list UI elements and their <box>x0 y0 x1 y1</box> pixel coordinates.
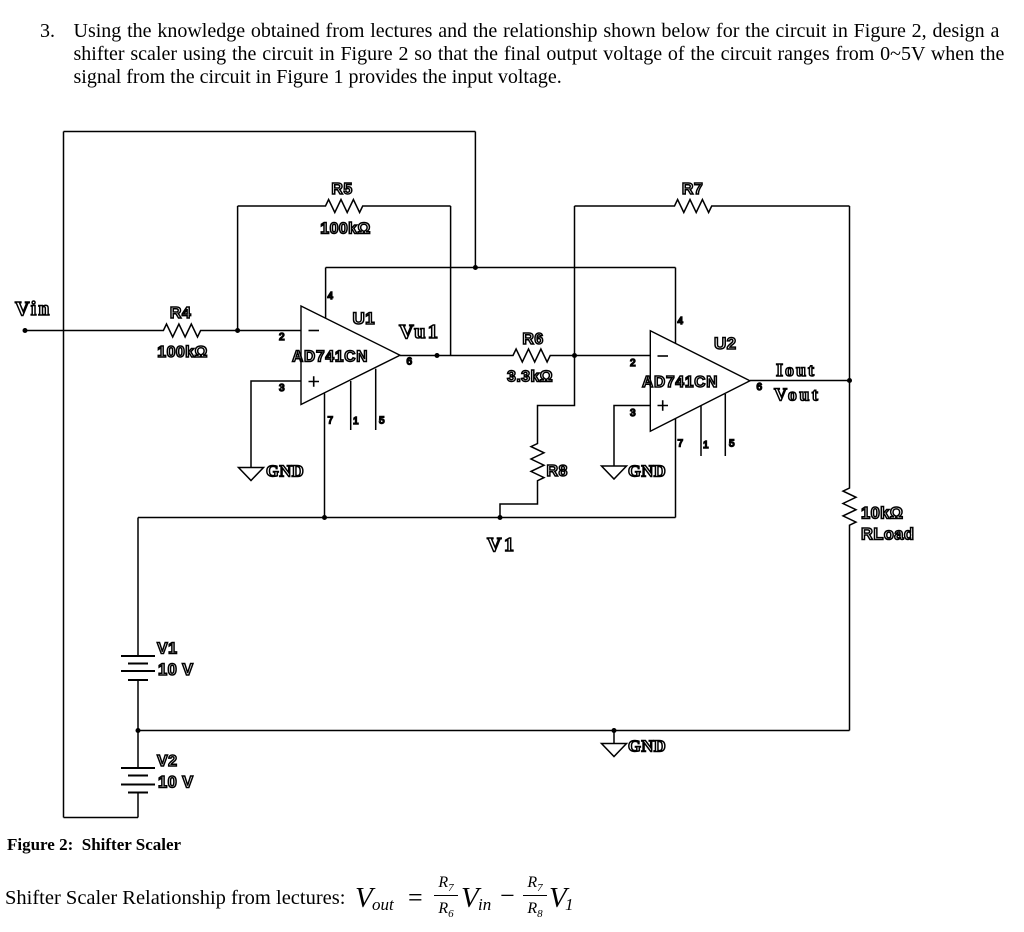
svg-text:7: 7 <box>328 416 334 427</box>
svg-text:V1: V1 <box>487 534 516 556</box>
wire RLoad net with resistor RLoad <box>843 381 856 731</box>
wire V+ bus <box>138 517 676 519</box>
wire bottom ground stub <box>613 731 615 744</box>
svg-text:7: 7 <box>678 439 684 450</box>
svg-text:AD741CN: AD741CN <box>292 349 368 366</box>
junction bottom ground <box>612 728 617 733</box>
junction Vu1 node <box>435 353 440 358</box>
wire U2 pin4 <box>675 268 677 344</box>
ground symbol GND3 <box>602 744 627 757</box>
wire U2 pin3 to ground <box>614 406 650 467</box>
svg-text:R5: R5 <box>331 181 352 198</box>
svg-text:R8: R8 <box>547 463 568 480</box>
op-amp U1 <box>301 306 400 405</box>
wire R7 left leg <box>574 206 576 356</box>
junction V- rail riser <box>473 265 478 270</box>
wire riser to top rail <box>474 132 476 268</box>
wire U1 output to U2 pin2 with resistor R6 <box>400 349 650 362</box>
wire V1 top to V+ bus <box>137 518 139 657</box>
wire V2 bottom lead <box>137 793 139 818</box>
U1 plus sign <box>309 376 320 387</box>
svg-text:AD741CN: AD741CN <box>642 374 718 391</box>
op-amp U2 <box>650 331 750 432</box>
svg-text:R4: R4 <box>170 305 191 322</box>
svg-text:U2: U2 <box>714 334 737 353</box>
svg-text:RLoad: RLoad <box>861 526 914 544</box>
wire R5 top with resistor R5 <box>238 200 451 213</box>
wire R5 left leg <box>237 206 239 331</box>
junction R4 / R5 branch <box>235 328 240 333</box>
wire R8 branch from node to resistor R8 to bus <box>500 356 575 518</box>
wire Vin to U1 pin2 with resistor R4 <box>25 324 301 337</box>
wire V2 top to mid junction <box>137 731 139 769</box>
svg-text:V2: V2 <box>157 753 177 770</box>
svg-text:6: 6 <box>407 357 413 368</box>
svg-text:Vout: Vout <box>774 385 820 405</box>
svg-text:2: 2 <box>279 332 285 343</box>
wire bottom bus <box>138 730 850 732</box>
svg-text:V1: V1 <box>157 641 177 658</box>
U2 minus sign <box>658 355 669 357</box>
svg-text:10 V: 10 V <box>158 774 194 792</box>
wire V- rail <box>326 267 676 269</box>
svg-text:3.3kΩ: 3.3kΩ <box>507 369 553 386</box>
junction R6 / R7 / R8 node <box>572 353 577 358</box>
svg-text:R7: R7 <box>682 181 703 198</box>
svg-text:6: 6 <box>757 382 763 393</box>
U1 minus sign <box>309 330 320 332</box>
svg-text:2: 2 <box>630 358 636 369</box>
wire U1 pin7 to bus <box>324 394 326 518</box>
battery V2 <box>121 768 155 793</box>
wire U1 pin4 <box>325 268 327 319</box>
junction U1 pin7 on bus <box>322 515 327 520</box>
node Vin terminal <box>23 328 28 333</box>
wire U2 pin7 to bus <box>675 419 677 518</box>
junction between V1 and V2 <box>136 728 141 733</box>
ground symbol GND1 <box>239 468 264 481</box>
wire R7 right leg <box>849 206 851 381</box>
svg-text:4: 4 <box>678 316 684 327</box>
svg-text:100kΩ: 100kΩ <box>157 344 207 361</box>
formula Vout = R7/R6 Vin - R7/R8 V1 <box>352 869 354 871</box>
svg-text:Vin: Vin <box>15 298 51 320</box>
caption Figure 2 <box>7 835 181 855</box>
svg-text:100kΩ: 100kΩ <box>320 221 370 238</box>
svg-text:5: 5 <box>729 439 735 450</box>
svg-text:Iout: Iout <box>776 360 816 380</box>
wire U1 pin5 stub <box>375 369 377 430</box>
svg-text:U1: U1 <box>353 309 376 328</box>
wire R7 top with resistor R7 <box>575 200 850 213</box>
svg-text:Vu1: Vu1 <box>399 321 440 343</box>
relationship text <box>5 887 345 910</box>
svg-text:10kΩ: 10kΩ <box>861 505 903 523</box>
svg-text:GND: GND <box>628 462 666 481</box>
ground symbol GND2 <box>602 466 627 479</box>
problem statement paragraph <box>40 20 55 43</box>
junction R8 branch on bus <box>498 515 503 520</box>
battery V1 <box>121 656 155 680</box>
junction output / RLoad <box>847 378 852 383</box>
svg-text:GND: GND <box>266 462 304 481</box>
wire U1 pin1 stub <box>350 381 352 430</box>
wire top rail V- loop <box>64 131 476 133</box>
svg-text:3: 3 <box>630 408 636 419</box>
wire U1 pin3 to ground <box>251 381 301 468</box>
svg-text:R6: R6 <box>522 331 543 348</box>
svg-text:1: 1 <box>703 440 709 451</box>
svg-text:GND: GND <box>628 737 666 756</box>
wire U2 output <box>750 380 850 382</box>
svg-text:10 V: 10 V <box>158 661 194 679</box>
wire left rail <box>63 132 65 818</box>
U2 plus sign <box>658 400 669 411</box>
wire U2 pin5 stub <box>724 394 726 456</box>
svg-text:5: 5 <box>379 416 385 427</box>
svg-text:1: 1 <box>353 416 359 427</box>
wire bottom left to V2 <box>64 817 139 819</box>
wire R5 right leg <box>450 206 452 356</box>
svg-text:3: 3 <box>279 383 285 394</box>
wire U2 pin1 stub <box>700 406 702 456</box>
svg-text:4: 4 <box>328 291 334 302</box>
wire V1 bottom lead <box>137 680 139 731</box>
